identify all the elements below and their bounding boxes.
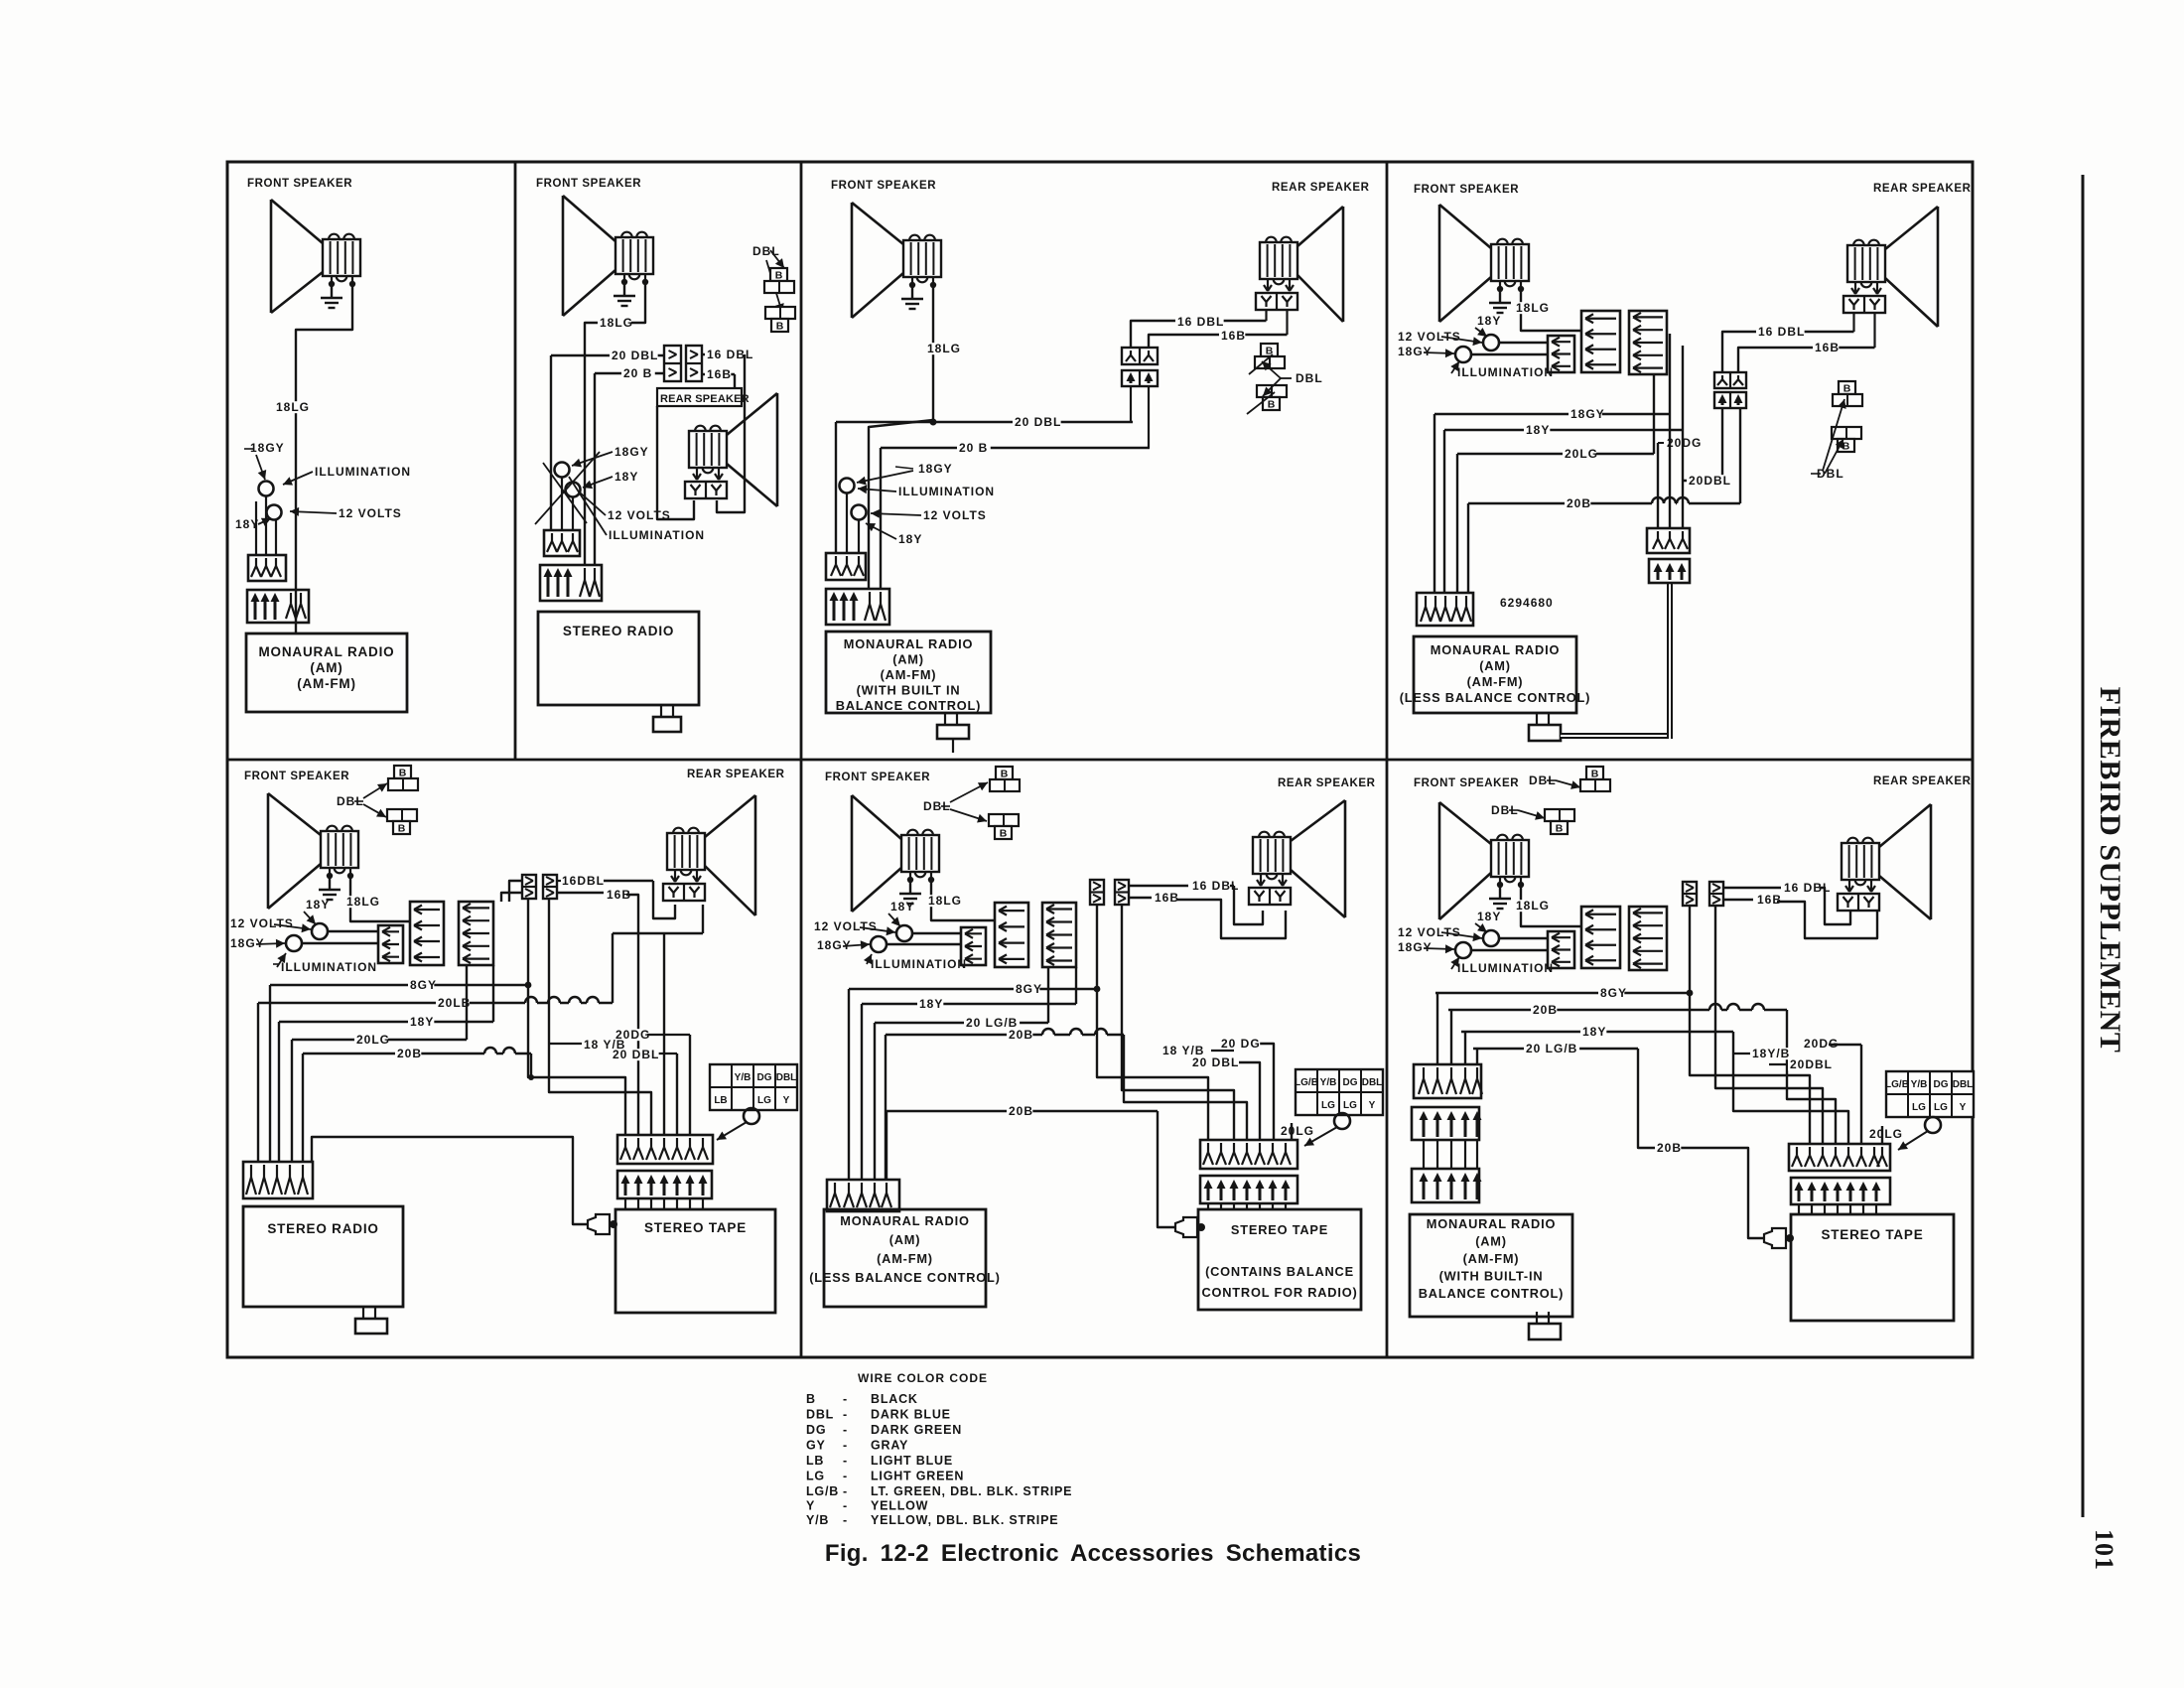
svg-text:(AM-FM): (AM-FM) [1467,674,1524,689]
svg-text:-: - [843,1470,847,1483]
svg-text:LG: LG [806,1470,825,1483]
svg-text:DARK GREEN: DARK GREEN [871,1423,962,1437]
svg-text:FRONT SPEAKER: FRONT SPEAKER [1414,777,1519,789]
svg-text:LB: LB [714,1095,727,1106]
svg-text:FRONT SPEAKER: FRONT SPEAKER [247,178,352,190]
svg-text:(LESS BALANCE CONTROL): (LESS BALANCE CONTROL) [1400,690,1590,705]
svg-text:18GY: 18GY [1570,407,1605,421]
svg-text:Y: Y [1960,1102,1967,1113]
svg-text:LG: LG [1343,1100,1357,1111]
svg-text:FRONT SPEAKER: FRONT SPEAKER [831,180,936,192]
svg-text:DBL: DBL [806,1408,834,1422]
svg-text:LB: LB [806,1454,824,1468]
svg-text:DG: DG [806,1423,826,1437]
svg-text:DG: DG [1343,1077,1358,1088]
svg-text:FIREBIRD SUPPLEMENT: FIREBIRD SUPPLEMENT [2094,687,2126,1054]
svg-text:Y/B: Y/B [735,1072,751,1083]
svg-text:20 LG/B: 20 LG/B [1526,1042,1577,1055]
svg-text:8GY: 8GY [1016,982,1042,996]
svg-text:18LG: 18LG [346,895,380,909]
svg-text:ILLUMINATION: ILLUMINATION [1457,365,1554,379]
svg-text:20 DBL: 20 DBL [613,1048,659,1061]
svg-text:20LG: 20LG [1565,447,1598,461]
svg-text:FRONT SPEAKER: FRONT SPEAKER [244,771,349,782]
svg-text:16B: 16B [707,367,732,381]
svg-text:(LESS BALANCE CONTROL): (LESS BALANCE CONTROL) [809,1270,1000,1285]
svg-text:LIGHT BLUE: LIGHT BLUE [871,1454,953,1468]
svg-text:20 DG: 20 DG [1221,1037,1261,1051]
svg-text:B: B [1268,399,1276,411]
svg-text:B: B [1591,769,1599,780]
svg-text:ILLUMINATION: ILLUMINATION [281,960,377,974]
svg-text:(AM-FM): (AM-FM) [1463,1251,1520,1266]
svg-text:18GY: 18GY [1398,940,1433,954]
svg-text:20DBL: 20DBL [1689,474,1731,488]
svg-text:20 DBL: 20 DBL [612,349,658,362]
svg-text:20B: 20B [1533,1003,1558,1017]
svg-text:(CONTAINS BALANCE: (CONTAINS BALANCE [1205,1264,1354,1279]
svg-text:LT. GREEN, DBL. BLK. STRIPE: LT. GREEN, DBL. BLK. STRIPE [871,1484,1072,1498]
svg-text:16B: 16B [1757,893,1782,907]
svg-text:LG/B: LG/B [806,1484,839,1498]
svg-text:18Y: 18Y [614,470,638,484]
svg-text:ILLUMINATION: ILLUMINATION [609,528,705,542]
svg-text:20 B: 20 B [959,441,988,455]
svg-text:DBL: DBL [1362,1077,1383,1088]
svg-text:-: - [843,1454,847,1468]
svg-text:DBL: DBL [1296,371,1323,385]
svg-text:8GY: 8GY [410,978,437,992]
svg-text:20DG: 20DG [1667,436,1702,450]
svg-text:(WITH BUILT IN: (WITH BUILT IN [857,683,961,698]
svg-text:YELLOW, DBL. BLK. STRIPE: YELLOW, DBL. BLK. STRIPE [871,1513,1058,1527]
svg-text:18Y: 18Y [890,900,914,914]
svg-text:DARK BLUE: DARK BLUE [871,1408,951,1422]
svg-text:WIRE COLOR CODE: WIRE COLOR CODE [858,1371,988,1385]
svg-text:ILLUMINATION: ILLUMINATION [1457,961,1554,975]
svg-text:MONAURAL RADIO: MONAURAL RADIO [844,636,973,651]
svg-text:LG: LG [757,1095,771,1106]
svg-text:16B: 16B [1815,341,1840,354]
svg-text:18Y: 18Y [1477,910,1501,923]
svg-text:Y/B: Y/B [1320,1077,1337,1088]
svg-text:STEREO RADIO: STEREO RADIO [267,1221,378,1236]
svg-text:B: B [398,823,406,835]
svg-text:16B: 16B [1221,329,1246,343]
svg-text:STEREO TAPE: STEREO TAPE [644,1220,747,1235]
svg-text:16 DBL: 16 DBL [1177,315,1224,329]
svg-text:B: B [1843,441,1850,453]
svg-text:Y: Y [806,1499,815,1513]
svg-text:Y/B: Y/B [806,1513,829,1527]
svg-text:GY: GY [806,1439,826,1453]
svg-text:BALANCE CONTROL): BALANCE CONTROL) [836,698,981,713]
svg-text:(WITH BUILT-IN: (WITH BUILT-IN [1439,1269,1544,1284]
svg-text:Y: Y [783,1095,790,1106]
svg-text:20 DBL: 20 DBL [1192,1055,1239,1069]
svg-text:-: - [843,1484,847,1498]
svg-text:DG: DG [757,1072,772,1083]
svg-text:-: - [843,1439,847,1453]
svg-text:16 DBL: 16 DBL [1758,325,1805,339]
svg-text:20LG: 20LG [356,1033,390,1047]
svg-text:(AM): (AM) [892,652,924,667]
svg-text:GRAY: GRAY [871,1439,908,1453]
svg-text:DG: DG [1934,1079,1949,1090]
svg-text:B: B [1556,823,1564,835]
svg-text:16B: 16B [1155,891,1179,905]
svg-text:18GY: 18GY [918,462,953,476]
svg-text:STEREO RADIO: STEREO RADIO [563,624,674,638]
svg-text:FRONT SPEAKER: FRONT SPEAKER [1414,184,1519,196]
svg-text:20B: 20B [397,1047,422,1060]
svg-text:REAR SPEAKER: REAR SPEAKER [1873,183,1972,195]
svg-text:20DBL: 20DBL [1790,1057,1833,1071]
svg-text:MONAURAL RADIO: MONAURAL RADIO [1427,1216,1556,1231]
svg-text:BLACK: BLACK [871,1392,918,1406]
svg-text:STEREO TAPE: STEREO TAPE [1231,1222,1328,1237]
svg-text:-: - [843,1499,847,1513]
svg-text:LG: LG [1912,1102,1926,1113]
svg-text:B: B [776,321,784,333]
svg-text:12 VOLTS: 12 VOLTS [1398,925,1461,939]
svg-text:20B: 20B [1009,1104,1033,1118]
svg-text:LG: LG [1321,1100,1335,1111]
svg-text:B: B [806,1392,816,1406]
svg-text:REAR SPEAKER: REAR SPEAKER [687,769,785,780]
svg-text:12 VOLTS: 12 VOLTS [814,919,878,933]
svg-text:6294680: 6294680 [1500,596,1554,610]
svg-text:(AM): (AM) [1479,658,1511,673]
svg-text:12 VOLTS: 12 VOLTS [1398,330,1461,344]
svg-text:MONAURAL RADIO: MONAURAL RADIO [1431,642,1560,657]
svg-text:FRONT SPEAKER: FRONT SPEAKER [825,772,930,783]
svg-text:18Y: 18Y [898,532,922,546]
svg-text:STEREO TAPE: STEREO TAPE [1821,1227,1923,1242]
svg-text:LG/B: LG/B [1295,1077,1318,1088]
svg-text:Y: Y [1369,1100,1376,1111]
svg-text:B: B [1843,383,1851,395]
svg-text:12 VOLTS: 12 VOLTS [339,506,402,520]
svg-text:B: B [1001,769,1009,780]
svg-text:18LG: 18LG [927,342,961,355]
svg-text:ILLUMINATION: ILLUMINATION [315,465,411,479]
svg-text:DBL: DBL [1817,467,1844,481]
svg-text:18LG: 18LG [600,316,633,330]
svg-text:B: B [399,768,407,779]
svg-text:CONTROL FOR RADIO): CONTROL FOR RADIO) [1201,1285,1357,1300]
svg-text:-: - [843,1392,847,1406]
svg-text:16 DBL: 16 DBL [707,348,753,361]
svg-text:-: - [843,1408,847,1422]
svg-text:18LG: 18LG [1516,301,1550,315]
svg-text:-: - [843,1423,847,1437]
svg-text:20B: 20B [1009,1028,1033,1042]
svg-text:18Y/B: 18Y/B [1752,1047,1790,1060]
svg-text:20B: 20B [1567,496,1591,510]
svg-text:18LG: 18LG [928,894,962,908]
svg-text:REAR SPEAKER: REAR SPEAKER [1873,775,1972,787]
svg-text:LG/B: LG/B [1885,1079,1909,1090]
svg-text:12 VOLTS: 12 VOLTS [608,508,671,522]
svg-text:MONAURAL RADIO: MONAURAL RADIO [840,1213,969,1228]
svg-text:REAR SPEAKER: REAR SPEAKER [1272,182,1370,194]
svg-text:ILLUMINATION: ILLUMINATION [898,485,995,498]
svg-text:18Y: 18Y [306,898,330,912]
svg-text:DBL: DBL [776,1072,797,1083]
svg-text:18LG: 18LG [276,400,310,414]
svg-text:B: B [1000,828,1008,840]
svg-text:18GY: 18GY [614,445,649,459]
svg-text:FRONT SPEAKER: FRONT SPEAKER [536,178,641,190]
svg-text:18GY: 18GY [250,441,285,455]
svg-text:BALANCE CONTROL): BALANCE CONTROL) [1419,1286,1564,1301]
svg-text:B: B [775,270,783,282]
svg-text:Fig. 12-2 Electronic Accessori: Fig. 12-2 Electronic Accessories Schemat… [825,1540,1361,1567]
svg-text:(AM-FM): (AM-FM) [297,676,356,691]
svg-text:18LG: 18LG [1516,899,1550,913]
svg-text:MONAURAL RADIO: MONAURAL RADIO [259,644,395,659]
svg-text:20B: 20B [1657,1141,1682,1155]
svg-text:18Y: 18Y [1582,1025,1606,1039]
svg-text:18Y: 18Y [410,1015,434,1029]
svg-text:DBL: DBL [1953,1079,1974,1090]
svg-text:ILLUMINATION: ILLUMINATION [871,957,967,971]
svg-text:YELLOW: YELLOW [871,1499,928,1513]
svg-text:20 B: 20 B [623,366,652,380]
svg-text:20LG: 20LG [1281,1124,1314,1138]
svg-text:8GY: 8GY [1600,986,1627,1000]
svg-text:(AM-FM): (AM-FM) [881,667,937,682]
svg-text:LIGHT GREEN: LIGHT GREEN [871,1470,964,1483]
svg-text:Y/B: Y/B [1911,1079,1928,1090]
svg-text:20LG: 20LG [1869,1127,1903,1141]
svg-text:12 VOLTS: 12 VOLTS [230,916,294,930]
svg-text:-: - [843,1513,847,1527]
svg-text:18Y: 18Y [1477,314,1501,328]
svg-text:LG: LG [1934,1102,1948,1113]
svg-text:18Y: 18Y [919,997,943,1011]
svg-text:101: 101 [2090,1529,2118,1571]
svg-text:REAR SPEAKER: REAR SPEAKER [660,393,750,405]
svg-text:20 DBL: 20 DBL [1015,415,1061,429]
svg-text:18Y: 18Y [1526,423,1550,437]
svg-text:(AM): (AM) [1475,1234,1507,1249]
svg-text:(AM): (AM) [889,1232,921,1247]
svg-text:(AM): (AM) [310,660,342,675]
svg-text:REAR SPEAKER: REAR SPEAKER [1278,777,1376,789]
svg-text:12 VOLTS: 12 VOLTS [923,508,987,522]
svg-text:(AM-FM): (AM-FM) [877,1251,933,1266]
svg-text:18GY: 18GY [1398,345,1433,358]
svg-text:16DBL: 16DBL [562,874,605,888]
